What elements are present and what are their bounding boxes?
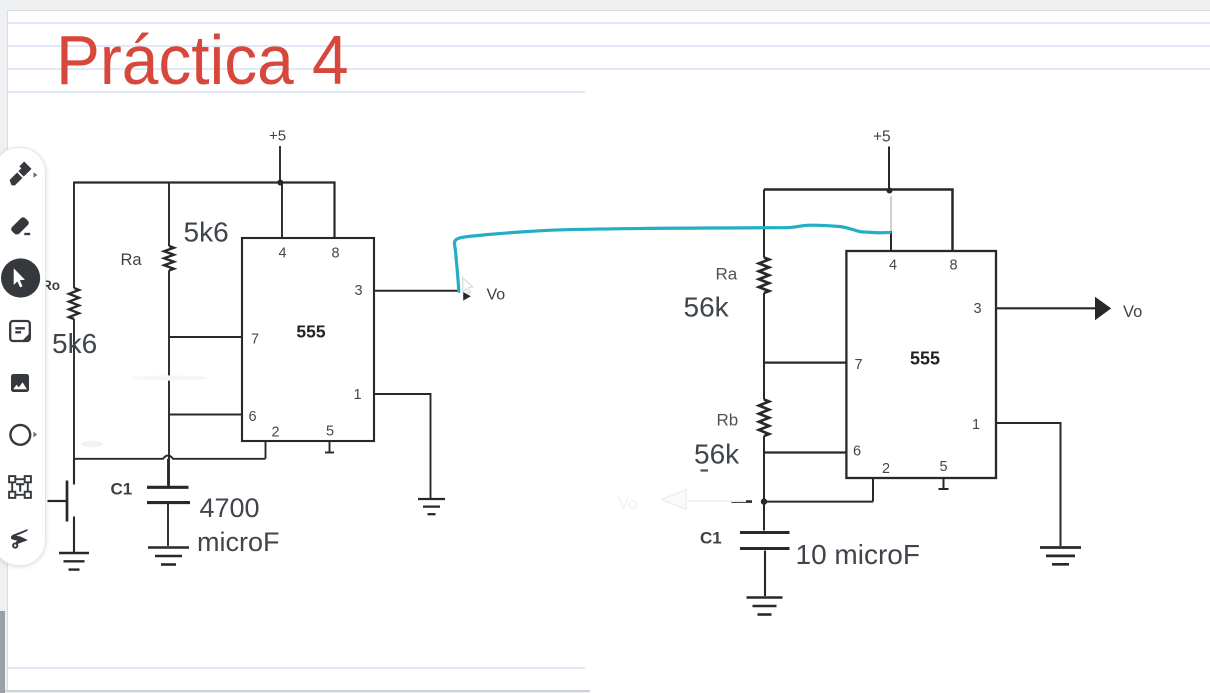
svg-text:Rb: Rb	[717, 411, 739, 430]
svg-text:6: 6	[853, 444, 861, 460]
svg-text:555: 555	[910, 349, 940, 369]
svg-text:8: 8	[331, 246, 339, 262]
svg-text:1: 1	[353, 387, 361, 403]
svg-text:8: 8	[949, 258, 957, 274]
svg-text:3: 3	[354, 283, 362, 299]
svg-text:6: 6	[248, 409, 256, 425]
svg-text:4700: 4700	[200, 493, 260, 523]
svg-text:C1: C1	[111, 480, 133, 499]
svg-text:5: 5	[939, 459, 947, 475]
svg-text:2: 2	[882, 461, 890, 477]
svg-text:5: 5	[326, 424, 334, 440]
svg-text:7: 7	[251, 332, 259, 348]
svg-text:Ra: Ra	[121, 251, 143, 269]
svg-text:7: 7	[854, 357, 862, 373]
svg-text:Ra: Ra	[716, 265, 738, 284]
svg-text:56k: 56k	[684, 292, 730, 323]
svg-text:Vo: Vo	[1123, 303, 1142, 321]
svg-text:microF: microF	[197, 527, 280, 557]
svg-text:10 microF: 10 microF	[796, 539, 920, 570]
svg-text:+5: +5	[269, 128, 286, 145]
svg-text:56k: 56k	[694, 439, 740, 470]
svg-text:4: 4	[278, 246, 286, 262]
svg-text:C1: C1	[700, 529, 722, 548]
svg-text:1: 1	[972, 417, 980, 433]
svg-text:5k6: 5k6	[184, 217, 229, 248]
svg-text:Vo: Vo	[618, 495, 637, 513]
svg-text:555: 555	[296, 322, 325, 342]
svg-text:2: 2	[271, 425, 279, 441]
svg-text:Vo: Vo	[487, 287, 506, 304]
svg-text:4: 4	[889, 258, 897, 274]
svg-text:+5: +5	[873, 129, 891, 146]
svg-text:3: 3	[973, 301, 981, 317]
